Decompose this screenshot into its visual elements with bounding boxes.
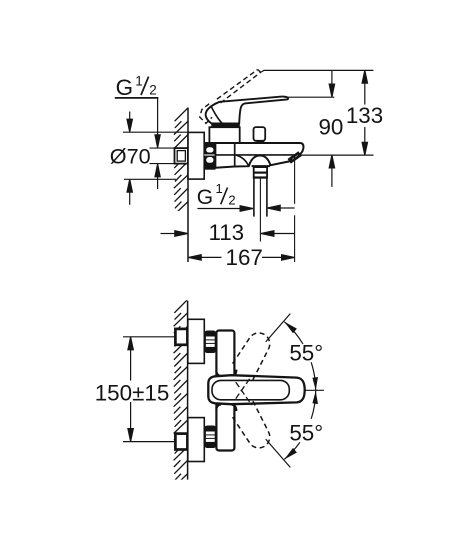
- dimension 133 arrows: [362, 70, 367, 155]
- lower escutcheon (plan): [188, 418, 205, 462]
- upper escutcheon (plan): [188, 319, 205, 363]
- wall surface line (side view), also extension line for 113/167: [187, 108, 189, 262]
- upper union nut (plan): [205, 331, 215, 352]
- spout tip extension line (for 167): [294, 157, 296, 204]
- 55° arc (lower): [284, 391, 315, 460]
- 55° arrowheads (lower): [284, 391, 318, 460]
- svg-text:55°: 55°: [289, 341, 323, 366]
- svg-text:55°: 55°: [289, 421, 323, 446]
- 55° ray (lower): [266, 439, 291, 467]
- svg-text:1: 1: [135, 74, 143, 89]
- label G 1/2 (hose connection): [197, 181, 236, 209]
- escutcheon flange (side view): [188, 132, 204, 179]
- shower hose connector: [254, 167, 267, 178]
- wall hatching (plan view): [174, 300, 188, 494]
- wall surface line (plan view): [187, 301, 189, 480]
- svg-text:150±15: 150±15: [95, 380, 170, 405]
- svg-text:G: G: [116, 75, 133, 100]
- wall hatching (side view): [174, 108, 188, 222]
- svg-text:1: 1: [216, 181, 223, 196]
- dimension 167 line and arrows: [188, 255, 294, 260]
- bottom reference line (spout outlet level): [301, 154, 374, 156]
- dashed lever rotated up 55° (plan): [233, 333, 270, 380]
- lower supply pipe line: [123, 441, 175, 443]
- svg-text:167: 167: [226, 245, 263, 270]
- G1/2 wall nipple in wall: [175, 148, 188, 164]
- upper supply pipe line: [123, 336, 175, 338]
- svg-text:Ø70: Ø70: [110, 143, 151, 168]
- union nut (black, side view): [204, 143, 215, 170]
- dimension 90 arrows: [329, 70, 334, 186]
- lever handle (solid, horizontal position): [206, 97, 289, 124]
- 55° arc (upper): [284, 322, 315, 391]
- 55° ray (upper): [266, 314, 291, 342]
- svg-text:2: 2: [228, 192, 235, 207]
- shower hose walls: [253, 178, 255, 217]
- G1/2 nipple extension lines: [150, 147, 175, 149]
- lever cone inner edge: [211, 107, 222, 124]
- top reference line (raised lever height): [261, 70, 374, 72]
- upper wall union (plan): [175, 329, 187, 345]
- lower wall union (plan): [175, 434, 187, 450]
- svg-text:113: 113: [208, 220, 244, 245]
- mid reference line (lever top level): [285, 96, 335, 98]
- 55° arrowheads (upper): [284, 322, 318, 391]
- aerator (black bar at spout tip): [289, 154, 300, 162]
- black ring band under lever cone: [211, 123, 240, 127]
- diverter knob: [254, 127, 266, 141]
- svg-text:90: 90: [318, 115, 343, 140]
- dashed lever rotated down 55° (plan): [233, 401, 270, 448]
- cartridge dome housing: [209, 127, 239, 143]
- lever centerlines cross at pivot: [236, 376, 252, 405]
- dashed lever (raised position): [200, 70, 261, 124]
- G1/2 hose leader arrow (right-pointing): [197, 205, 294, 211]
- faucet body and spout outline (side view): [204, 143, 303, 168]
- label G1/2 underline and leader arrows: [115, 98, 160, 189]
- hose center extension line: [259, 178, 261, 242]
- dimension Ø70 extension lines: [123, 131, 188, 133]
- dimension 150±15: [128, 337, 133, 441]
- dimension Ø70 arrows: [127, 112, 132, 205]
- dimension 113 arrows: [161, 231, 295, 236]
- lever handle (plan, solid): [208, 375, 304, 404]
- axis reference line at lever tip: [305, 389, 324, 391]
- svg-text:G: G: [197, 186, 213, 209]
- lower union nut (plan): [205, 426, 215, 447]
- body-lever fillets: [216, 370, 236, 411]
- diverter knob stem band: [257, 140, 265, 143]
- svg-text:133: 133: [346, 103, 383, 128]
- lever inner outline (plan): [212, 380, 289, 399]
- label G 1/2 (wall connection, top-left): [116, 74, 157, 101]
- body bar (plan): [216, 331, 234, 451]
- svg-text:2: 2: [149, 83, 157, 98]
